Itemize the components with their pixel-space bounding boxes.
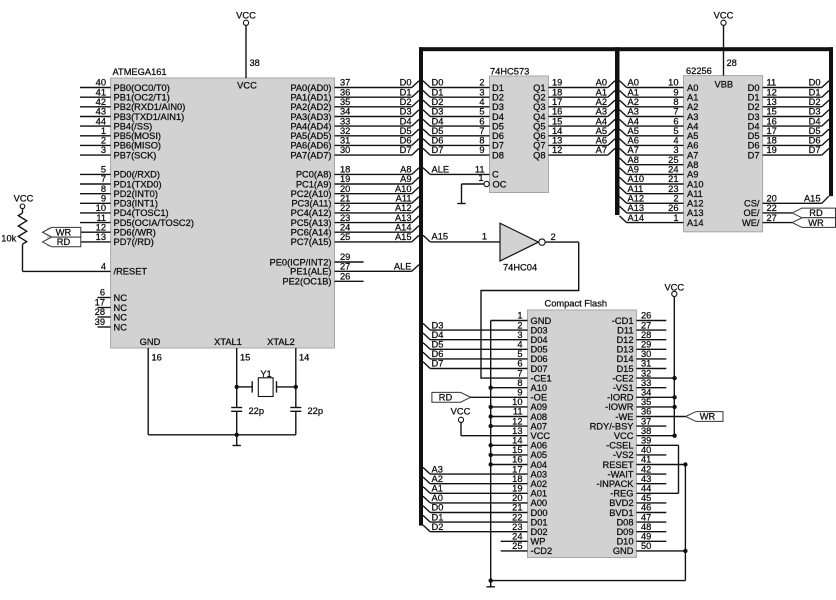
svg-text:12: 12	[512, 416, 522, 426]
svg-text:D5: D5	[432, 340, 444, 350]
svg-text:21: 21	[668, 174, 678, 184]
svg-text:33: 33	[340, 116, 350, 126]
svg-text:13: 13	[512, 426, 522, 436]
svg-text:28: 28	[95, 307, 105, 317]
svg-text:A02: A02	[531, 479, 548, 489]
svg-text:33: 33	[641, 378, 651, 388]
svg-text:A11: A11	[687, 189, 703, 199]
svg-text:50: 50	[641, 541, 651, 551]
svg-text:42: 42	[641, 464, 651, 474]
svg-text:32: 32	[641, 368, 651, 378]
svg-text:43: 43	[641, 474, 651, 484]
svg-text:14: 14	[552, 126, 562, 136]
svg-text:D11: D11	[617, 325, 633, 335]
svg-text:22p: 22p	[308, 406, 324, 416]
svg-text:34: 34	[641, 388, 651, 398]
svg-text:NC: NC	[114, 293, 128, 303]
svg-text:PA4(AD4): PA4(AD4)	[290, 121, 331, 131]
svg-text:A9: A9	[400, 174, 411, 184]
svg-text:8: 8	[673, 97, 678, 107]
svg-text:3: 3	[101, 145, 106, 155]
svg-text:22: 22	[512, 512, 522, 522]
svg-text:2: 2	[517, 320, 522, 330]
svg-text:44: 44	[641, 484, 651, 494]
svg-text:27: 27	[767, 213, 777, 223]
svg-text:22: 22	[340, 203, 350, 213]
svg-text:PD0(/RXD): PD0(/RXD)	[114, 170, 161, 180]
svg-text:A12: A12	[628, 194, 645, 204]
svg-text:RD: RD	[439, 393, 453, 403]
svg-text:8: 8	[517, 378, 522, 388]
svg-text:Q4: Q4	[533, 112, 545, 122]
svg-text:41: 41	[641, 455, 651, 465]
svg-text:D5: D5	[432, 126, 444, 136]
svg-text:A3: A3	[432, 464, 443, 474]
svg-text:1: 1	[517, 311, 522, 321]
svg-text:20: 20	[340, 184, 350, 194]
svg-text:ALE: ALE	[432, 165, 450, 175]
svg-text:A2: A2	[596, 97, 607, 107]
svg-text:9: 9	[479, 145, 484, 155]
svg-text:5: 5	[479, 107, 484, 117]
svg-text:38: 38	[250, 58, 260, 68]
svg-text:22p: 22p	[249, 406, 265, 416]
svg-text:D0: D0	[432, 503, 444, 513]
svg-text:2: 2	[673, 194, 678, 204]
svg-text:RESET: RESET	[603, 460, 634, 470]
svg-text:A7: A7	[628, 145, 639, 155]
svg-text:D15: D15	[616, 364, 633, 374]
svg-text:39: 39	[641, 436, 651, 446]
svg-text:12: 12	[552, 145, 562, 155]
svg-text:A05: A05	[531, 450, 548, 460]
svg-text:D1: D1	[432, 512, 444, 522]
svg-text:WR: WR	[56, 227, 72, 237]
svg-text:A1: A1	[687, 93, 698, 103]
svg-text:RD: RD	[57, 237, 71, 247]
svg-text:PB1(OC2/T1): PB1(OC2/T1)	[114, 93, 170, 103]
svg-text:A03: A03	[531, 469, 548, 479]
svg-text:28: 28	[641, 330, 651, 340]
svg-text:A13: A13	[628, 203, 645, 213]
svg-text:6: 6	[479, 116, 484, 126]
svg-text:PA0(AD0): PA0(AD0)	[290, 83, 331, 93]
svg-text:A11: A11	[628, 184, 644, 194]
svg-text:5: 5	[673, 126, 678, 136]
svg-text:XTAL2: XTAL2	[267, 337, 295, 347]
svg-text:A8: A8	[628, 155, 639, 165]
svg-text:VCC: VCC	[614, 431, 634, 441]
svg-text:PD7(/RD): PD7(/RD)	[114, 237, 154, 247]
svg-text:D1: D1	[492, 83, 504, 93]
svg-text:24: 24	[512, 532, 522, 542]
svg-text:CS/: CS/	[744, 199, 760, 209]
svg-text:D7: D7	[432, 145, 444, 155]
svg-text:-WAIT: -WAIT	[608, 469, 634, 479]
svg-text:3: 3	[479, 87, 484, 97]
svg-text:A14: A14	[687, 218, 704, 228]
svg-text:A14: A14	[395, 222, 412, 232]
svg-text:ATMEGA161: ATMEGA161	[113, 67, 167, 77]
svg-text:VBB: VBB	[715, 80, 734, 90]
svg-text:41: 41	[96, 87, 106, 97]
svg-text:2: 2	[479, 78, 484, 88]
svg-text:D2: D2	[809, 97, 821, 107]
svg-text:25: 25	[668, 155, 678, 165]
svg-text:VCC: VCC	[237, 80, 257, 90]
svg-text:D4: D4	[748, 121, 760, 131]
svg-text:BVD1: BVD1	[609, 508, 633, 518]
svg-text:A6: A6	[687, 141, 698, 151]
svg-text:A5: A5	[687, 131, 698, 141]
svg-text:D2: D2	[400, 97, 412, 107]
svg-text:D6: D6	[432, 136, 444, 146]
svg-text:1: 1	[673, 213, 678, 223]
svg-text:D6: D6	[809, 136, 821, 146]
svg-text:PC3(A11): PC3(A11)	[291, 199, 331, 209]
svg-text:A0: A0	[628, 78, 639, 88]
svg-text:D12: D12	[616, 335, 633, 345]
svg-text:A12: A12	[395, 203, 412, 213]
svg-text:42: 42	[96, 97, 106, 107]
svg-text:A10: A10	[628, 174, 645, 184]
svg-text:VCC: VCC	[531, 431, 551, 441]
svg-text:-CE2: -CE2	[612, 373, 633, 383]
svg-text:17: 17	[767, 126, 777, 136]
svg-text:PE1(ALE): PE1(ALE)	[290, 267, 331, 277]
svg-text:26: 26	[668, 203, 678, 213]
svg-text:38: 38	[641, 426, 651, 436]
svg-text:D0: D0	[400, 78, 412, 88]
svg-text:WE/: WE/	[742, 218, 760, 228]
svg-text:7: 7	[673, 107, 678, 117]
svg-text:29: 29	[641, 340, 651, 350]
svg-text:D1: D1	[432, 87, 444, 97]
svg-text:-CE1: -CE1	[531, 373, 552, 383]
svg-text:9: 9	[673, 87, 678, 97]
svg-text:D7: D7	[748, 150, 760, 160]
svg-text:-VS1: -VS1	[613, 383, 634, 393]
svg-text:44: 44	[96, 116, 106, 126]
svg-text:45: 45	[641, 493, 651, 503]
svg-text:NC: NC	[114, 312, 128, 322]
svg-text:18: 18	[512, 474, 522, 484]
svg-text:3: 3	[517, 330, 522, 340]
svg-text:30: 30	[641, 349, 651, 359]
svg-text:C: C	[492, 170, 499, 180]
svg-text:1: 1	[101, 126, 106, 136]
svg-text:16: 16	[512, 455, 522, 465]
svg-text:PD2(INT0): PD2(INT0)	[114, 189, 158, 199]
svg-text:A08: A08	[531, 412, 548, 422]
svg-text:9: 9	[101, 194, 106, 204]
svg-text:10: 10	[96, 203, 106, 213]
svg-text:PC1(A9): PC1(A9)	[296, 179, 332, 189]
svg-text:A10: A10	[395, 184, 412, 194]
svg-text:22: 22	[767, 203, 777, 213]
svg-text:NC: NC	[114, 322, 128, 332]
svg-text:XTAL1: XTAL1	[214, 337, 242, 347]
svg-text:5: 5	[101, 165, 106, 175]
svg-text:A14: A14	[628, 213, 645, 223]
svg-text:A09: A09	[531, 402, 548, 412]
svg-text:A00: A00	[531, 498, 548, 508]
svg-text:23: 23	[512, 522, 522, 532]
svg-text:-IOWR: -IOWR	[605, 402, 634, 412]
svg-text:D3: D3	[400, 107, 412, 117]
svg-text:26: 26	[340, 271, 350, 281]
svg-text:7: 7	[517, 368, 522, 378]
svg-text:A07: A07	[531, 421, 548, 431]
svg-text:D04: D04	[531, 335, 548, 345]
svg-text:A13: A13	[395, 213, 412, 223]
svg-text:A6: A6	[596, 136, 607, 146]
svg-text:A04: A04	[531, 460, 548, 470]
svg-text:6: 6	[673, 116, 678, 126]
svg-text:17: 17	[552, 97, 562, 107]
svg-text:6: 6	[517, 359, 522, 369]
svg-text:16: 16	[152, 353, 162, 363]
svg-text:PC2(A10): PC2(A10)	[291, 189, 332, 199]
svg-text:BVD2: BVD2	[609, 498, 633, 508]
svg-text:37: 37	[641, 416, 651, 426]
svg-text:4: 4	[673, 136, 678, 146]
svg-text:D7: D7	[492, 141, 504, 151]
svg-text:A7: A7	[687, 150, 698, 160]
svg-text:15: 15	[552, 116, 562, 126]
svg-text:PC0(A8): PC0(A8)	[296, 170, 332, 180]
svg-text:OE/: OE/	[743, 208, 759, 218]
svg-text:A11: A11	[396, 194, 412, 204]
svg-text:43: 43	[96, 107, 106, 117]
svg-text:OC: OC	[493, 179, 507, 189]
svg-text:D6: D6	[432, 349, 444, 359]
svg-text:D14: D14	[616, 354, 633, 364]
svg-text:D3: D3	[492, 102, 504, 112]
svg-text:D10: D10	[616, 537, 633, 547]
svg-text:27: 27	[641, 320, 651, 330]
svg-text:PC7(A15): PC7(A15)	[291, 237, 332, 247]
svg-text:23: 23	[340, 213, 350, 223]
svg-text:D7: D7	[432, 359, 444, 369]
svg-text:18: 18	[767, 136, 777, 146]
svg-text:9: 9	[517, 388, 522, 398]
svg-text:35: 35	[340, 97, 350, 107]
svg-text:Q6: Q6	[533, 131, 545, 141]
svg-text:NC: NC	[114, 303, 128, 313]
svg-text:15: 15	[240, 353, 250, 363]
svg-text:16: 16	[552, 107, 562, 117]
svg-text:D01: D01	[531, 517, 548, 527]
svg-text:PA5(AD5): PA5(AD5)	[290, 131, 331, 141]
svg-text:13: 13	[96, 232, 106, 242]
svg-text:D4: D4	[432, 330, 444, 340]
svg-text:PA2(AD2): PA2(AD2)	[290, 102, 331, 112]
svg-text:D09: D09	[616, 527, 633, 537]
svg-text:A1: A1	[596, 87, 607, 97]
svg-text:/RESET: /RESET	[114, 267, 148, 277]
svg-text:21: 21	[340, 194, 350, 204]
svg-text:Q1: Q1	[533, 83, 545, 93]
svg-text:D2: D2	[748, 102, 760, 112]
svg-text:PB4(/SS): PB4(/SS)	[114, 121, 153, 131]
svg-text:PA7(AD7): PA7(AD7)	[290, 150, 331, 160]
svg-text:D4: D4	[432, 116, 444, 126]
svg-text:24: 24	[668, 165, 678, 175]
svg-text:36: 36	[641, 407, 651, 417]
svg-text:A06: A06	[531, 441, 548, 451]
svg-text:A15: A15	[432, 232, 449, 242]
svg-text:PB3(TXD1/AIN1): PB3(TXD1/AIN1)	[114, 112, 185, 122]
svg-text:VCC: VCC	[451, 406, 471, 416]
svg-text:40: 40	[641, 445, 651, 455]
svg-text:A8: A8	[687, 160, 698, 170]
svg-text:48: 48	[641, 522, 651, 532]
svg-text:26: 26	[641, 311, 651, 321]
svg-text:25: 25	[340, 232, 350, 242]
svg-text:10k: 10k	[1, 234, 16, 244]
svg-text:Q7: Q7	[533, 141, 545, 151]
svg-text:7: 7	[479, 126, 484, 136]
svg-text:A10: A10	[531, 383, 548, 393]
svg-text:PB2(RXD1/AIN0): PB2(RXD1/AIN0)	[114, 102, 186, 112]
svg-text:31: 31	[340, 136, 350, 146]
svg-text:39: 39	[95, 317, 105, 327]
svg-text:11: 11	[96, 213, 106, 223]
svg-text:-OE: -OE	[531, 393, 548, 403]
svg-text:17: 17	[95, 298, 105, 308]
svg-text:36: 36	[340, 87, 350, 97]
svg-text:8: 8	[101, 184, 106, 194]
svg-text:GND: GND	[531, 316, 552, 326]
svg-text:RD: RD	[809, 208, 823, 218]
svg-text:A7: A7	[596, 145, 607, 155]
svg-text:20: 20	[767, 194, 777, 204]
svg-text:A3: A3	[628, 107, 639, 117]
svg-text:Q8: Q8	[533, 150, 545, 160]
svg-text:46: 46	[641, 503, 651, 513]
svg-text:VCC: VCC	[714, 11, 734, 21]
svg-text:A0: A0	[687, 83, 698, 93]
svg-text:19: 19	[340, 174, 350, 184]
svg-text:D3: D3	[809, 107, 821, 117]
svg-text:RDY/-BSY: RDY/-BSY	[590, 421, 634, 431]
svg-text:D4: D4	[400, 116, 412, 126]
svg-text:A9: A9	[687, 170, 698, 180]
svg-text:Q3: Q3	[533, 102, 545, 112]
svg-text:21: 21	[512, 503, 522, 513]
svg-text:31: 31	[641, 359, 651, 369]
svg-text:GND: GND	[140, 337, 161, 347]
svg-text:VCC: VCC	[14, 194, 34, 204]
svg-text:19: 19	[767, 145, 777, 155]
svg-text:30: 30	[340, 145, 350, 155]
svg-text:D2: D2	[492, 93, 504, 103]
svg-text:D5: D5	[400, 126, 412, 136]
svg-text:D7: D7	[809, 145, 821, 155]
svg-text:D2: D2	[432, 97, 444, 107]
svg-text:11: 11	[513, 407, 523, 417]
svg-text:Q2: Q2	[533, 93, 545, 103]
svg-text:PD3(INT1): PD3(INT1)	[114, 199, 158, 209]
svg-text:A5: A5	[596, 126, 607, 136]
svg-text:A2: A2	[628, 97, 639, 107]
svg-text:5: 5	[517, 349, 522, 359]
svg-text:3: 3	[673, 145, 678, 155]
svg-text:-CD2: -CD2	[531, 546, 553, 556]
svg-text:-INPACK: -INPACK	[596, 479, 634, 489]
svg-text:D6: D6	[400, 136, 412, 146]
svg-text:15: 15	[767, 107, 777, 117]
svg-text:D08: D08	[616, 517, 633, 527]
svg-text:24: 24	[340, 222, 350, 232]
svg-text:20: 20	[512, 493, 522, 503]
svg-text:WR: WR	[700, 412, 716, 422]
svg-text:D1: D1	[809, 87, 821, 97]
svg-text:PA6(AD6): PA6(AD6)	[290, 141, 331, 151]
svg-text:-REG: -REG	[610, 489, 633, 499]
svg-text:D0: D0	[809, 78, 821, 88]
svg-text:A4: A4	[596, 116, 607, 126]
svg-text:A3: A3	[596, 107, 607, 117]
svg-text:2: 2	[551, 232, 556, 242]
svg-text:A0: A0	[596, 78, 607, 88]
svg-text:25: 25	[512, 541, 522, 551]
svg-text:PD1(TXD0): PD1(TXD0)	[114, 179, 162, 189]
svg-text:PB5(MOSI): PB5(MOSI)	[114, 131, 162, 141]
svg-text:A6: A6	[628, 136, 639, 146]
svg-text:PB6(MISO): PB6(MISO)	[114, 141, 162, 151]
svg-text:A1: A1	[628, 87, 639, 97]
svg-text:A8: A8	[400, 165, 411, 175]
svg-text:1: 1	[482, 231, 487, 241]
svg-text:40: 40	[96, 78, 106, 88]
svg-text:PC5(A13): PC5(A13)	[291, 218, 332, 228]
svg-text:D4: D4	[809, 116, 821, 126]
svg-text:Compact Flash: Compact Flash	[545, 299, 608, 309]
svg-text:11: 11	[767, 78, 777, 88]
svg-text:D6: D6	[492, 131, 504, 141]
svg-text:D05: D05	[531, 345, 548, 355]
svg-text:A4: A4	[628, 116, 639, 126]
svg-text:10: 10	[512, 397, 522, 407]
svg-text:WR: WR	[808, 218, 824, 228]
svg-text:7: 7	[101, 174, 106, 184]
svg-text:12: 12	[96, 222, 106, 232]
svg-text:23: 23	[668, 184, 678, 194]
svg-text:15: 15	[512, 445, 522, 455]
svg-text:1: 1	[478, 173, 483, 183]
svg-text:D1: D1	[400, 87, 412, 97]
svg-text:19: 19	[512, 484, 522, 494]
svg-text:A2: A2	[687, 102, 698, 112]
svg-text:4: 4	[479, 97, 484, 107]
svg-text:18: 18	[552, 87, 562, 97]
svg-text:PD6(/WR): PD6(/WR)	[114, 228, 156, 238]
svg-text:PD5(OCIA/TOSC2): PD5(OCIA/TOSC2)	[114, 218, 194, 228]
svg-text:D03: D03	[531, 325, 548, 335]
svg-text:13: 13	[767, 97, 777, 107]
svg-text:PC4(A12): PC4(A12)	[291, 208, 332, 218]
svg-text:ALE: ALE	[394, 262, 412, 272]
svg-text:PE2(OC1B): PE2(OC1B)	[282, 277, 331, 287]
svg-text:PA3(AD3): PA3(AD3)	[290, 112, 331, 122]
svg-text:12: 12	[767, 87, 777, 97]
svg-text:37: 37	[340, 78, 350, 88]
svg-text:A15: A15	[395, 232, 412, 242]
svg-text:D5: D5	[809, 126, 821, 136]
svg-text:D3: D3	[432, 320, 444, 330]
